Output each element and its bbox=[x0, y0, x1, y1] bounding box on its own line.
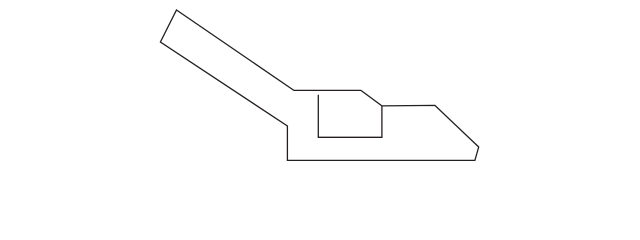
inner cutout bbox=[318, 95, 382, 138]
part outline bbox=[160, 10, 478, 160]
